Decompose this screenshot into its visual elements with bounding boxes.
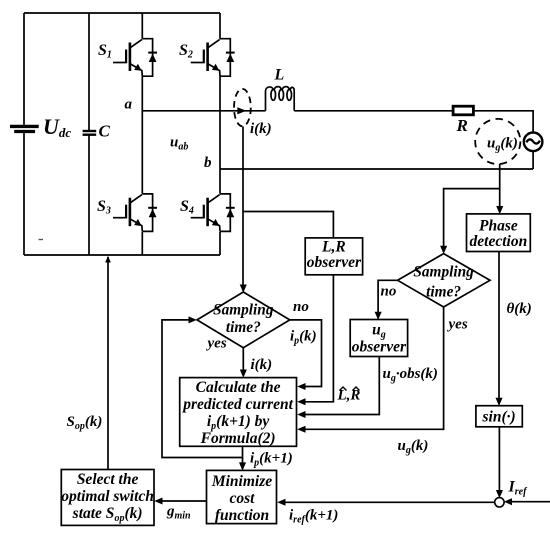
wire: iref(k+1) to minimize: [285, 501, 495, 503]
svg-text:observer: observer: [307, 254, 362, 271]
box Phase detection: [467, 214, 531, 252]
svg-text:yes: yes: [206, 336, 227, 352]
svg-text:R: R: [456, 116, 468, 135]
wire: node a to inductor: [142, 110, 265, 112]
left diamond Sampling time?: [197, 292, 290, 348]
svg-text:Sop(k): Sop(k): [67, 414, 103, 432]
wire: right bridge leg middle: [219, 76, 221, 194]
box Calculate predicted current: [180, 378, 297, 447]
wire: L,R observer output: [304, 275, 333, 402]
svg-text:detection: detection: [470, 233, 528, 250]
svg-text:L: L: [274, 67, 285, 84]
wire: ug observer output: [304, 357, 379, 415]
svg-text:Sampling: Sampling: [213, 302, 274, 319]
wire: inductor to resistor: [294, 110, 453, 112]
svg-text:Minimize: Minimize: [211, 473, 272, 490]
wire: Iref input from right: [506, 501, 550, 503]
arrow into summing node right: [504, 498, 512, 505]
arrow into calculate right edge 3: [297, 411, 305, 418]
arrow into left diamond top: [240, 285, 247, 293]
arrow into left diamond left vertex: [189, 316, 197, 323]
svg-text:function: function: [215, 507, 269, 524]
svg-text:ip(k): ip(k): [290, 329, 317, 347]
wire: DC-link top rail: [24, 12, 220, 14]
arrow into calculate top: [240, 370, 247, 378]
polarity mark: [39, 239, 44, 240]
svg-text:Formula(2): Formula(2): [200, 430, 276, 447]
arrow into sin box top: [496, 398, 503, 406]
arrow into minimize top: [239, 462, 246, 470]
wire: left bridge leg middle: [141, 76, 143, 194]
wire: capacitor leg upper: [88, 13, 90, 130]
wire: left bridge leg bottom: [141, 232, 143, 255]
battery Udc: [10, 126, 39, 131]
arrow into calculate right edge 2: [297, 398, 305, 405]
wire: branch to right diamond: [444, 189, 500, 252]
transistor S3 with antiparallel diode: [113, 194, 157, 232]
wire: sin output: [498, 427, 500, 496]
svg-text:yes: yes: [447, 317, 468, 333]
svg-text:Sampling: Sampling: [413, 264, 474, 281]
wire: phase detection output: [498, 252, 500, 404]
wire: branch to L,R observer: [243, 212, 333, 238]
svg-text:ug(k): ug(k): [487, 136, 518, 154]
wire: battery leg upper: [23, 13, 25, 125]
wire: Sop(k) feedback up to bridge: [107, 257, 109, 470]
arrow into calculate right edge 1: [297, 383, 305, 390]
svg-text:i(k): i(k): [251, 357, 273, 373]
wire: battery leg lower: [23, 133, 25, 255]
transistor S4 with antiparallel diode: [191, 194, 235, 232]
transistor S2 with antiparallel diode: [191, 39, 235, 76]
transistor S1 with antiparallel diode: [113, 39, 157, 76]
svg-text:state Sop(k): state Sop(k): [72, 505, 143, 524]
svg-text:time?: time?: [426, 284, 461, 301]
wire: capacitor leg lower: [88, 136, 90, 256]
svg-text:no: no: [293, 299, 309, 315]
svg-text:C: C: [99, 122, 111, 141]
arrow into summing node: [496, 490, 503, 498]
wire: right bridge leg top: [219, 13, 221, 39]
svg-text:optimal switch: optimal switch: [61, 488, 154, 505]
svg-text:ug·obs(k): ug·obs(k): [383, 366, 438, 384]
right diamond Sampling time?: [398, 254, 490, 307]
svg-text:observer: observer: [352, 339, 407, 356]
arrow into minimize right edge: [277, 499, 285, 506]
wire: i(k) sense line down: [242, 127, 244, 291]
wire: resistor to grid corner: [473, 111, 533, 133]
voltage sensor dashed circle: [475, 119, 520, 164]
svg-text:θ(k): θ(k): [507, 301, 532, 317]
wire: ug sensor stem: [499, 164, 501, 212]
current sensor dashed ellipse: [234, 89, 251, 126]
wire: left diamond yes branch: [242, 348, 244, 376]
svg-text:Calculate the: Calculate the: [196, 379, 281, 396]
wire: left diamond no branch: [290, 320, 322, 387]
svg-text:no: no: [381, 284, 397, 300]
box ug observer: [350, 320, 407, 357]
AC grid source: [524, 133, 543, 152]
arrow into bridge bottom rail: [105, 256, 111, 263]
svg-text:a: a: [125, 97, 133, 113]
wire: calculate output with feedback branch: [162, 320, 243, 458]
wire: output to minimize: [242, 458, 244, 469]
arrow into right diamond top: [440, 246, 447, 254]
svg-text:b: b: [204, 155, 212, 171]
wire: right diamond no branch: [378, 280, 398, 317]
svg-text:cost: cost: [230, 490, 256, 507]
arrow into select right edge: [154, 498, 162, 505]
svg-text:i(k): i(k): [250, 121, 272, 137]
wire: right diamond yes branch: [304, 307, 444, 429]
wire: DC-link bottom rail: [24, 254, 220, 256]
box sin: [476, 406, 522, 427]
svg-text:sin(·): sin(·): [482, 409, 516, 426]
wire: right bridge leg bottom: [219, 232, 221, 255]
arrow into calculate right edge 4: [297, 426, 305, 433]
svg-text:time?: time?: [226, 319, 261, 336]
svg-text:predicted current: predicted current: [181, 396, 293, 413]
inductor L: [266, 87, 295, 111]
wire: node b rail: [220, 168, 533, 170]
svg-text:ug(k): ug(k): [398, 438, 429, 456]
svg-text:L,R: L,R: [321, 239, 346, 256]
box Minimize cost function: [207, 470, 277, 523]
wire: grid source to b rail: [532, 151, 534, 169]
wire: left bridge leg top: [141, 13, 143, 39]
current sensor arrow on wire: [237, 107, 246, 114]
resistor R: [453, 106, 473, 115]
svg-text:Phase: Phase: [479, 218, 518, 235]
capacitor C: [83, 131, 97, 135]
svg-text:Select the: Select the: [77, 471, 139, 488]
box Select optimal switch state: [61, 470, 154, 526]
arrow into phase detection top: [496, 206, 503, 214]
box L,R observer: [305, 238, 362, 275]
wire: gmin to select: [161, 500, 207, 502]
summing node: [495, 498, 504, 507]
arrow into ug observer top: [375, 312, 382, 320]
